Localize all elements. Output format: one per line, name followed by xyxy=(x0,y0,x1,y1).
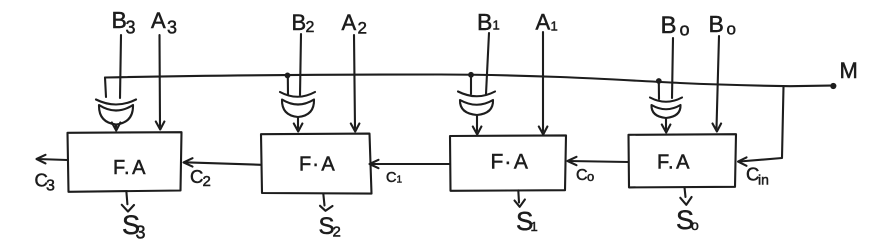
wire carry C0 xyxy=(569,161,629,162)
wire A1 input xyxy=(542,32,544,131)
svg-text:3: 3 xyxy=(46,178,55,195)
wire XOR1 output xyxy=(476,115,478,131)
wire arrowhead A3 xyxy=(156,122,165,130)
svg-text:F.A: F.A xyxy=(657,152,690,174)
wire carry C1 xyxy=(371,163,451,165)
wire arrowhead S3 xyxy=(122,205,134,212)
svg-text:C: C xyxy=(576,167,588,184)
wire arrowhead C0 xyxy=(568,157,577,165)
svg-text:3: 3 xyxy=(167,18,177,38)
wire arrowhead C2 xyxy=(184,158,193,166)
full adder FA2 box xyxy=(261,134,372,194)
wire S1 output xyxy=(517,190,520,202)
xor gate U2 top curve xyxy=(280,92,315,97)
svg-text:B: B xyxy=(477,9,492,35)
svg-text:1: 1 xyxy=(531,219,538,234)
full adder FA3 box xyxy=(68,132,182,192)
wire S3 output xyxy=(126,192,127,204)
svg-text:1: 1 xyxy=(493,18,500,33)
wire B0b input xyxy=(717,36,720,128)
wire M drop to XOR2 xyxy=(287,75,289,95)
wire M to Cin vertical xyxy=(740,87,784,162)
xor gate U3 body xyxy=(99,105,133,125)
svg-text:o: o xyxy=(587,169,594,184)
wire A3 input xyxy=(158,35,161,126)
wire arrowhead S0 xyxy=(680,197,691,205)
wire M drop to XOR1 xyxy=(470,75,472,94)
wire S2 output xyxy=(323,194,324,206)
wire XOR0 output xyxy=(665,118,667,129)
wire arrowhead XOR3 xyxy=(112,123,121,131)
xor gate U3 top curve xyxy=(96,100,136,105)
wire B2 input xyxy=(300,34,301,95)
xor gate U1 body xyxy=(460,100,493,115)
full adder FA0 box xyxy=(629,134,737,187)
svg-text:3: 3 xyxy=(126,18,136,38)
svg-text:C: C xyxy=(190,166,203,187)
wire carry C2 xyxy=(185,162,262,165)
svg-text:2: 2 xyxy=(306,19,315,36)
wire arrowhead B0b xyxy=(713,124,722,132)
wire arrowhead XOR0 xyxy=(662,125,671,133)
wire M bus horizontal xyxy=(105,75,830,87)
wire S0 output xyxy=(685,187,686,197)
wire arrowhead A1 xyxy=(539,127,548,135)
svg-text:2: 2 xyxy=(203,173,211,190)
svg-text:C: C xyxy=(386,170,396,186)
svg-text:2: 2 xyxy=(358,19,367,38)
wire arrowhead S1 xyxy=(515,200,525,207)
xor gate U1 top curve xyxy=(458,92,495,97)
svg-text:B: B xyxy=(661,12,677,39)
wire C3 output xyxy=(37,159,68,160)
wire M drop to XOR3 xyxy=(105,78,106,98)
wire B0a input xyxy=(672,38,673,98)
svg-text:B: B xyxy=(292,10,307,35)
svg-text:1: 1 xyxy=(397,175,403,186)
svg-text:o: o xyxy=(727,20,736,39)
svg-text:M: M xyxy=(840,58,858,83)
wire arrowhead C3 xyxy=(37,155,46,164)
wire junction dot stage0 xyxy=(656,78,662,84)
wire arrowhead A2 xyxy=(351,124,360,132)
wire XOR3 output xyxy=(115,125,117,128)
svg-text:2: 2 xyxy=(333,224,341,241)
wire arrowhead XOR2 xyxy=(294,124,303,132)
wire arrowhead XOR1 xyxy=(473,127,482,135)
full adder FA1 box xyxy=(450,135,566,190)
svg-text:in: in xyxy=(758,172,769,188)
xor gate U0 top curve xyxy=(650,98,682,102)
svg-text:o: o xyxy=(691,217,699,233)
svg-text:3: 3 xyxy=(136,223,146,243)
svg-text:o: o xyxy=(680,20,690,40)
svg-text:F·A: F·A xyxy=(491,151,528,174)
svg-text:B: B xyxy=(709,11,724,37)
wire arrowhead C1 xyxy=(370,160,379,168)
wire XOR2 output xyxy=(297,117,299,128)
svg-text:A: A xyxy=(536,10,551,35)
node M dot xyxy=(830,83,836,89)
wire arrowhead Cin xyxy=(738,157,747,165)
svg-text:F·A: F·A xyxy=(299,154,335,176)
wire junction dot stage2 xyxy=(285,73,291,79)
wire junction dot stage1 xyxy=(468,72,474,78)
svg-text:F.A: F.A xyxy=(113,157,146,179)
wire arrowhead S2 xyxy=(320,206,333,211)
xor gate U2 body xyxy=(282,100,314,118)
svg-text:A: A xyxy=(151,8,166,33)
wire A2 input xyxy=(354,35,355,128)
svg-text:1: 1 xyxy=(551,19,558,34)
xor gate U0 body xyxy=(651,105,680,118)
wire B3 input xyxy=(120,35,121,98)
wire B1 input xyxy=(486,33,489,94)
wire M drop to XOR0 xyxy=(658,81,660,99)
svg-text:A: A xyxy=(342,10,357,35)
